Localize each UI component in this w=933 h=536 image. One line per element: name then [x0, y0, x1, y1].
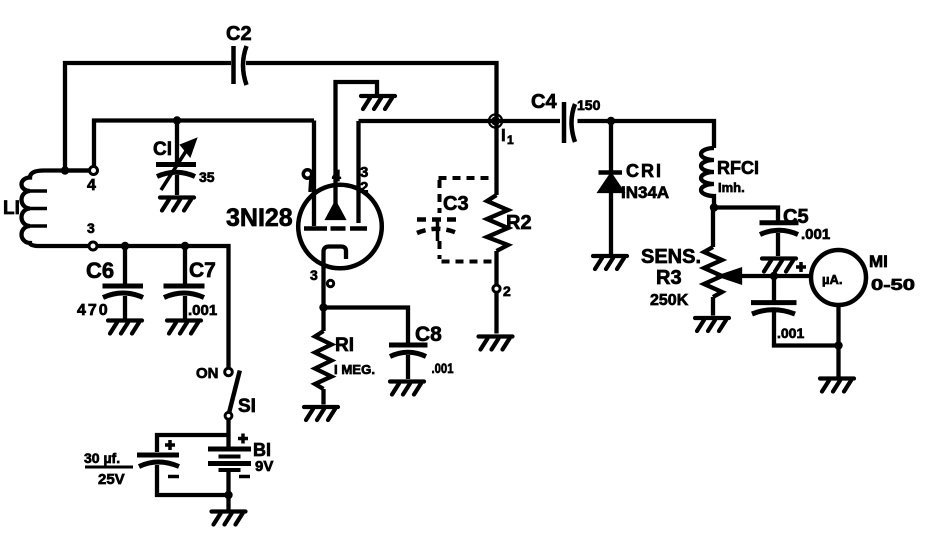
svg-text:3: 3	[87, 220, 95, 236]
svg-text:25V: 25V	[98, 471, 125, 488]
potentiometer R3	[711, 207, 715, 247]
svg-text:2: 2	[360, 179, 368, 196]
svg-text:4: 4	[332, 168, 341, 185]
svg-text:CRI: CRI	[626, 161, 663, 181]
svg-text:CI: CI	[153, 139, 172, 160]
wire source hook	[324, 247, 347, 308]
svg-text:.001: .001	[432, 360, 454, 376]
wire electrolytic top	[157, 435, 229, 452]
capacitor electrolytic 30uf	[137, 453, 179, 458]
capacitor C2	[234, 46, 247, 85]
wire battery bottom	[226, 470, 230, 510]
capacitor C7	[183, 246, 187, 284]
node 4 terminal	[90, 167, 98, 175]
svg-text:3NI28: 3NI28	[226, 204, 293, 232]
wire top bus right segment	[246, 63, 497, 121]
svg-text:35: 35	[199, 169, 215, 185]
svg-text:LI: LI	[3, 198, 20, 219]
svg-text:ON: ON	[196, 365, 219, 382]
svg-text:I MEG.: I MEG.	[334, 362, 375, 377]
meter M1	[811, 250, 866, 305]
resistor R1	[321, 307, 325, 331]
svg-text:C2: C2	[226, 23, 252, 45]
svg-text:R3: R3	[656, 267, 682, 289]
wire M1 bottom	[836, 305, 840, 377]
switch S1 bottom terminal	[225, 412, 232, 419]
wire C4 to RFC1	[578, 121, 715, 148]
svg-text:470: 470	[77, 302, 110, 319]
label pin g1	[303, 170, 311, 192]
svg-text:C4: C4	[531, 91, 557, 113]
wire RFC1 to C5	[714, 208, 778, 222]
capacitor C1	[156, 121, 196, 196]
svg-text:C5: C5	[783, 206, 809, 228]
svg-text:l: l	[501, 126, 506, 145]
ground C1	[160, 198, 194, 211]
ground top	[361, 96, 395, 109]
svg-text:IN34A: IN34A	[621, 183, 669, 202]
switch S1 top terminal	[225, 368, 233, 376]
capacitor C3 dashed	[439, 178, 497, 262]
label plus meter	[796, 262, 806, 272]
capacitor C6	[123, 246, 127, 284]
svg-text:9V: 9V	[255, 458, 273, 475]
wire top bus left segment	[65, 63, 231, 170]
ground M1	[820, 379, 854, 392]
svg-text:150: 150	[577, 97, 601, 113]
plus minus electrolytic	[165, 434, 250, 477]
svg-text:C3: C3	[443, 193, 469, 215]
svg-text:C6: C6	[86, 258, 114, 283]
wire S1 to battery	[226, 419, 230, 449]
svg-text:.001: .001	[801, 226, 830, 243]
ground B1	[212, 512, 246, 525]
wire pin4 to top ground	[336, 82, 378, 217]
ground R1	[304, 407, 338, 420]
ground CR1	[593, 256, 627, 269]
wire bus2 right	[359, 119, 561, 123]
capacitor C4	[562, 102, 567, 143]
svg-text:0-50: 0-50	[871, 277, 915, 294]
svg-text:SENS.: SENS.	[641, 246, 701, 268]
svg-text:R2: R2	[506, 212, 532, 234]
ground C6	[108, 321, 142, 334]
inductor L1	[22, 171, 94, 247]
wire drain pin	[356, 121, 360, 223]
node I1 junction	[489, 114, 502, 127]
transistor Q1 3N128	[298, 185, 382, 269]
ground R3	[695, 318, 729, 331]
svg-text:2: 2	[503, 283, 511, 299]
node 3 terminal	[89, 242, 97, 250]
wire bus2 left	[94, 121, 314, 168]
capacitor C9 .001 meter bypass	[772, 276, 776, 301]
inductor RFC1	[701, 148, 714, 207]
svg-text:250K: 250K	[650, 292, 689, 309]
capacitor C5	[760, 220, 799, 225]
switch S1 blade	[229, 371, 240, 414]
svg-text:BI: BI	[253, 440, 271, 460]
svg-text:1: 1	[507, 133, 514, 147]
ground C5	[762, 259, 796, 272]
svg-text:C8: C8	[415, 323, 442, 346]
diode CR1	[609, 121, 613, 171]
resistor R2	[494, 121, 498, 195]
svg-text:3: 3	[310, 267, 318, 283]
svg-text:.001: .001	[188, 302, 217, 319]
open terminals	[89, 167, 500, 420]
svg-text:RI: RI	[335, 335, 354, 356]
wire L1 bottom to C6 C7 and switch column	[93, 246, 229, 369]
battery B1	[208, 447, 251, 452]
ground R2	[479, 337, 513, 350]
svg-text:µA.: µA.	[822, 272, 843, 287]
wire source to C8	[324, 308, 409, 344]
source terminal circle	[327, 280, 333, 286]
wire R3 wiper to M1	[725, 274, 811, 278]
wire gate1 pin	[312, 121, 316, 227]
svg-text:MI: MI	[869, 252, 888, 271]
svg-text:C7: C7	[189, 259, 216, 282]
svg-text:30 µf.: 30 µf.	[84, 450, 120, 466]
svg-text:Imh.: Imh.	[718, 180, 745, 195]
wire L1 top	[65, 168, 90, 172]
node 2 terminal	[493, 285, 500, 292]
svg-text:4: 4	[87, 177, 96, 194]
ground C7	[167, 321, 201, 334]
svg-text:SI: SI	[238, 396, 256, 417]
svg-text:.001: .001	[777, 325, 804, 341]
svg-text:RFCI: RFCI	[717, 158, 759, 178]
ground C8	[390, 382, 424, 395]
capacitor C8	[389, 343, 428, 348]
